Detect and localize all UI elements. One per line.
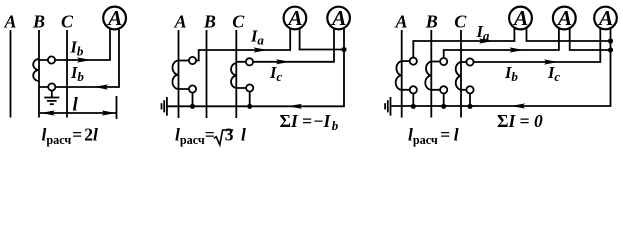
terminal K2 of T1 [48,83,55,90]
wire T5 secondary top stub [431,61,443,63]
junction dot return 1 [608,38,613,43]
svg-text:C: C [61,12,74,32]
ammeter PA2 [284,6,307,30]
bus arrow sum current [288,104,302,109]
ammeter PA3 [327,6,350,30]
terminal K1 of T1 [48,56,55,63]
wire CT1 secondary top to ammeter PA1 left [39,26,110,60]
terminal K1 of T2 [189,57,196,64]
wire Ic to ammeter PA6 [470,26,600,62]
transformer T2 primary winding [172,61,178,90]
svg-text:lрасч=2l: lрасч=2l [42,125,99,148]
terminal K2 of T6 [466,86,473,93]
current arrow Ib3 [510,47,524,52]
terminal K2 of T4 [410,86,417,93]
wire Ib to ammeter PA5 [444,26,559,62]
wire PA2 right to junction [300,26,344,50]
wire phase A2 [178,30,180,118]
junction dot T5-bus [441,104,446,109]
svg-text:Ic: Ic [547,63,560,84]
wire Ic to ammeter PA3 [250,26,335,62]
svg-text:A: A [394,12,407,32]
svg-text:B: B [203,12,216,32]
transformer T6 primary winding [456,62,461,90]
terminal K1 of T4 [410,58,417,65]
transformer T4 primary winding [396,61,402,90]
dimension line l [40,96,117,119]
svg-text:C: C [454,12,467,32]
wire T2 secondary top stub [179,60,193,62]
wire T6 secondary top stub [461,61,470,63]
junction dot T2-bus [190,104,195,109]
svg-text:l: l [73,95,79,116]
junction dot T3-bus [247,104,252,109]
svg-text:A: A [286,6,302,30]
junction dot T4-bus [411,104,416,109]
svg-text:A: A [3,12,16,32]
junction dot return 2 [608,47,613,52]
current arrow Ia [254,47,268,52]
ground G2 [162,97,167,116]
terminal K1 of T3 [246,58,253,65]
current arrow Ib (bottom wire) [94,84,108,89]
junction dot T6-bus [467,104,472,109]
terminal K2 of T3 [246,84,253,91]
svg-text:Ib: Ib [504,63,518,84]
svg-text:B: B [425,12,438,32]
wire T3 secondary top stub [236,61,249,63]
wire phase A3 [401,30,403,118]
wire phase C2 [235,30,237,118]
terminal K2 of T5 [440,86,447,93]
svg-text:A: A [597,6,613,30]
svg-text:Ic: Ic [269,63,282,84]
svg-text:ΣI = −Ib: ΣI = −Ib [280,111,339,133]
current arrow Ic3 [544,59,558,64]
svg-text:Ib: Ib [70,63,84,84]
svg-text:A: A [106,6,122,30]
svg-text:A: A [512,6,528,30]
wire phase B3 [430,30,432,118]
wire T3 secondary bottom to bus [236,88,249,106]
svg-text:C: C [232,12,245,32]
current arrow Ic [276,59,290,64]
wire phase C3 [460,30,462,118]
ammeter PA1 [103,6,126,30]
current arrow Ia3 [479,38,493,43]
wire PA4 right return [527,26,611,41]
svg-text:A: A [556,6,572,30]
wire T4 secondary bottom to bus [402,90,414,107]
svg-text:A: A [330,6,346,30]
wire T6 secondary bottom to bus [461,90,470,107]
wire PA6 right lead and return bus [391,26,611,106]
wire T2 secondary bottom to bus [179,89,193,106]
ammeter PA6 [594,6,617,30]
transformer T1 primary winding [33,59,39,81]
svg-text:lрасч=3l: lрасч=3l [175,125,246,148]
radical sign [214,130,233,145]
svg-text:Ia: Ia [476,22,490,43]
wire T4 secondary top stub [402,60,414,62]
svg-text:Ia: Ia [250,27,264,48]
transformer T3 primary winding [231,63,236,88]
wire phase B2 [206,30,208,118]
ammeter PA5 [553,6,576,30]
ground G1 [44,91,59,105]
svg-text:Ib: Ib [70,38,84,59]
svg-text:B: B [32,12,45,32]
wire phase B [38,30,40,118]
terminal K1 of T6 [466,58,473,65]
wire PA3 right lead [343,26,345,50]
wire T5 secondary bottom to bus [431,90,443,107]
transformer T5 primary winding [425,62,431,90]
wire Ia to ammeter PA2 [193,26,291,61]
return bus wire [167,50,344,107]
terminal K2 of T2 [189,85,196,92]
wire phase C [66,30,68,118]
current arrow Ib (top wire) [77,57,91,62]
bus arrow sum current 3 [511,103,525,108]
svg-text:lрасч=l: lрасч=l [408,125,459,148]
wire PA5 right return [570,26,611,50]
terminal K1 of T5 [440,58,447,65]
ground G3 [385,97,390,116]
wire Ia to ammeter PA4 [413,26,514,61]
svg-text:ΣI = 0: ΣI = 0 [497,111,543,131]
ammeter PA4 [509,6,532,30]
wire CT1 secondary bottom to ammeter PA1 right [39,26,119,87]
wire phase A [10,30,12,118]
junction dot returns [341,47,346,52]
svg-text:A: A [174,12,187,32]
